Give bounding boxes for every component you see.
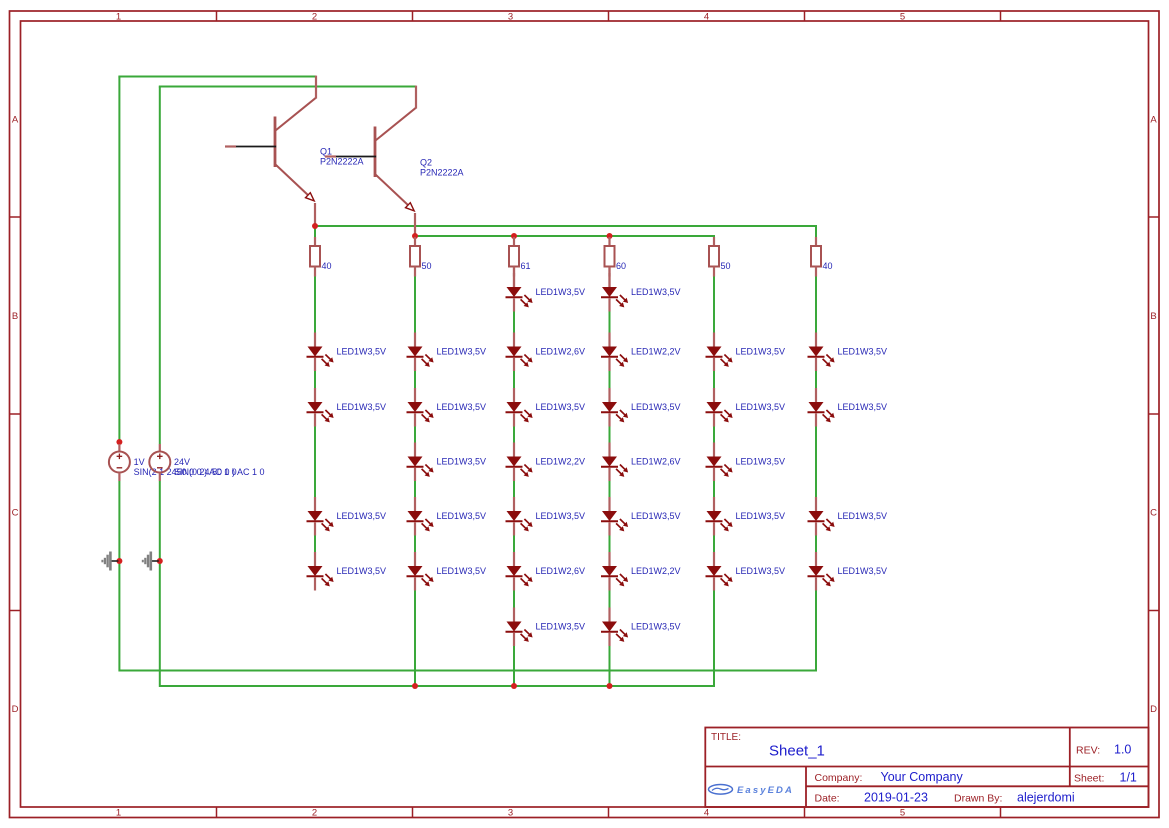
- LED D5.5 (LED1W3,5V): [706, 497, 786, 536]
- svg-text:LED1W3,5V: LED1W3,5V: [736, 511, 786, 521]
- svg-text:LED1W2,6V: LED1W2,6V: [536, 566, 586, 576]
- svg-text:C: C: [1150, 508, 1157, 519]
- svg-text:SIN(0 24 50 0 ) AC 1 0: SIN(0 24 50 0 ) AC 1 0: [174, 467, 265, 477]
- resistor R1 value 40: [310, 237, 332, 277]
- svg-text:EasyEDA: EasyEDA: [737, 785, 794, 796]
- frame row ticks left: [10, 217, 21, 611]
- svg-text:LED1W3,5V: LED1W3,5V: [838, 566, 888, 576]
- LED D3.1 (LED1W3,5V): [506, 273, 586, 312]
- LED D6.6 (LED1W3,5V): [808, 552, 888, 591]
- svg-text:LED1W3,5V: LED1W3,5V: [838, 347, 888, 357]
- junction bus2 column 3: [511, 233, 517, 239]
- svg-text:LED1W3,5V: LED1W3,5V: [437, 347, 487, 357]
- LED D2.6 (LED1W3,5V): [407, 552, 487, 591]
- LED D4.7 (LED1W3,5V): [601, 608, 681, 647]
- svg-text:LED1W3,5V: LED1W3,5V: [838, 511, 888, 521]
- wire column 4 top drop: [609, 236, 611, 238]
- svg-text:D: D: [12, 704, 19, 715]
- svg-text:LED1W3,5V: LED1W3,5V: [536, 402, 586, 412]
- svg-text:5: 5: [900, 12, 905, 23]
- svg-text:50: 50: [721, 261, 731, 271]
- svg-text:Q2: Q2: [420, 158, 432, 168]
- LED D4.3 (LED1W3,5V): [601, 388, 681, 427]
- svg-text:Company:: Company:: [815, 772, 863, 784]
- LED D3.6 (LED1W2,6V): [506, 552, 586, 591]
- wire column 5 top drop: [713, 235, 715, 238]
- svg-text:LED1W3,5V: LED1W3,5V: [337, 402, 387, 412]
- LED D1.6 (LED1W3,5V): [307, 552, 387, 591]
- wire column 1 segments: [314, 277, 316, 554]
- junction Q1 emitter / bus1: [312, 223, 318, 229]
- LED D3.7 (LED1W3,5V): [506, 608, 586, 647]
- svg-text:REV:: REV:: [1076, 745, 1100, 757]
- voltage source V1 (1V): [109, 439, 237, 481]
- svg-text:C: C: [12, 508, 19, 519]
- ground GND2: [143, 552, 163, 571]
- resistor R5 value 50: [709, 237, 731, 277]
- svg-text:3: 3: [508, 12, 513, 23]
- wire V2 top horizontal to Q2 collector: [159, 86, 416, 88]
- LED D4.4 (LED1W2,6V): [601, 443, 681, 482]
- svg-text:1/1: 1/1: [1120, 771, 1137, 785]
- svg-text:LED1W3,5V: LED1W3,5V: [631, 287, 681, 297]
- frame row labels left: [12, 115, 19, 716]
- resistor R3 value 61: [509, 237, 531, 277]
- wire bottom return bus to column 6: [119, 670, 816, 672]
- junction Q2 emitter / bus2: [412, 233, 418, 239]
- svg-text:TITLE:: TITLE:: [711, 732, 741, 743]
- svg-text:P2N2222A: P2N2222A: [320, 157, 364, 167]
- svg-text:LED1W3,5V: LED1W3,5V: [631, 402, 681, 412]
- svg-text:LED1W3,5V: LED1W3,5V: [437, 402, 487, 412]
- LED D5.4 (LED1W3,5V): [706, 443, 786, 482]
- svg-text:40: 40: [322, 261, 332, 271]
- frame row ticks right: [1149, 217, 1160, 611]
- svg-text:alejerdomi: alejerdomi: [1017, 791, 1075, 805]
- svg-text:Sheet_1: Sheet_1: [769, 743, 825, 760]
- wire V1 bottom vertical: [118, 481, 120, 672]
- LED D6.2 (LED1W3,5V): [808, 333, 888, 372]
- frame column ticks top: [217, 11, 1001, 21]
- LED D3.2 (LED1W2,6V): [506, 333, 586, 372]
- LED D2.3 (LED1W3,5V): [407, 388, 487, 427]
- svg-text:LED1W2,6V: LED1W2,6V: [536, 347, 586, 357]
- LED D2.2 (LED1W3,5V): [407, 333, 487, 372]
- LED D5.3 (LED1W3,5V): [706, 388, 786, 427]
- wire bottom return bus to columns 2-5: [160, 685, 714, 687]
- ground GND1: [102, 552, 122, 571]
- LED D5.2 (LED1W3,5V): [706, 333, 786, 372]
- resistor R2 value 50: [410, 237, 432, 277]
- svg-text:1V: 1V: [134, 457, 145, 467]
- wire emitter bus 1: [315, 225, 816, 227]
- svg-text:Sheet:: Sheet:: [1074, 773, 1104, 785]
- wire V2 bottom vertical: [159, 481, 161, 687]
- LED D4.1 (LED1W3,5V): [601, 273, 681, 312]
- junction bottom bus column 3: [511, 683, 517, 689]
- LED D3.5 (LED1W3,5V): [506, 497, 586, 536]
- LED D1.2 (LED1W3,5V): [307, 333, 387, 372]
- svg-text:24V: 24V: [174, 457, 190, 467]
- svg-text:LED1W3,5V: LED1W3,5V: [736, 566, 786, 576]
- wire V1 top horizontal to Q1 collector: [118, 76, 316, 78]
- svg-text:Your Company: Your Company: [881, 770, 964, 784]
- transistor Q2 P2N2222A: [325, 86, 464, 236]
- voltage source V2 (24V): [149, 444, 264, 481]
- frame column ticks bottom: [217, 807, 1001, 818]
- svg-text:LED1W3,5V: LED1W3,5V: [631, 622, 681, 632]
- svg-text:LED1W2,6V: LED1W2,6V: [631, 457, 681, 467]
- svg-text:B: B: [1150, 311, 1156, 322]
- svg-text:1: 1: [116, 12, 121, 23]
- svg-text:Q1: Q1: [320, 147, 332, 157]
- svg-text:LED1W3,5V: LED1W3,5V: [337, 511, 387, 521]
- svg-text:LED1W3,5V: LED1W3,5V: [536, 622, 586, 632]
- LED D5.6 (LED1W3,5V): [706, 552, 786, 591]
- LED D3.4 (LED1W2,2V): [506, 443, 586, 482]
- svg-text:40: 40: [823, 261, 833, 271]
- wire column 5 bottom riser: [713, 591, 715, 688]
- LED D4.6 (LED1W2,2V): [601, 552, 681, 591]
- svg-text:4: 4: [704, 808, 709, 819]
- wire column 3 segments: [513, 267, 515, 688]
- LED D6.5 (LED1W3,5V): [808, 497, 888, 536]
- svg-text:1: 1: [116, 808, 121, 819]
- EasyEDA logo: [709, 785, 794, 797]
- svg-text:LED1W3,5V: LED1W3,5V: [631, 511, 681, 521]
- svg-text:LED1W2,2V: LED1W2,2V: [631, 347, 681, 357]
- svg-text:2: 2: [312, 12, 317, 23]
- svg-text:60: 60: [616, 261, 626, 271]
- svg-text:61: 61: [521, 261, 531, 271]
- wire column 6 segments: [815, 277, 817, 554]
- LED D6.3 (LED1W3,5V): [808, 388, 888, 427]
- svg-text:LED1W2,2V: LED1W2,2V: [631, 566, 681, 576]
- svg-text:B: B: [12, 311, 18, 322]
- svg-text:LED1W3,5V: LED1W3,5V: [437, 566, 487, 576]
- svg-text:1.0: 1.0: [1114, 743, 1131, 757]
- wire column 5 segments: [713, 277, 715, 687]
- wire V1 loop top vertical: [118, 77, 120, 445]
- svg-text:LED1W3,5V: LED1W3,5V: [536, 511, 586, 521]
- LED D2.5 (LED1W3,5V): [407, 497, 487, 536]
- LED D4.5 (LED1W3,5V): [601, 497, 681, 536]
- svg-text:LED1W3,5V: LED1W3,5V: [437, 457, 487, 467]
- svg-text:A: A: [1150, 115, 1157, 126]
- junction bus2 column 4: [607, 233, 613, 239]
- LED D1.5 (LED1W3,5V): [307, 497, 387, 536]
- svg-text:LED1W3,5V: LED1W3,5V: [838, 402, 888, 412]
- wire column 1 top drop: [314, 226, 316, 238]
- transistor Q1 P2N2222A: [225, 76, 364, 226]
- svg-text:LED1W3,5V: LED1W3,5V: [736, 402, 786, 412]
- wire column 3 top drop: [513, 236, 515, 238]
- wire column 2 segments: [414, 277, 416, 688]
- wire column 6 top drop: [815, 225, 817, 238]
- wire emitter bus 2: [415, 235, 714, 237]
- LED D4.2 (LED1W2,2V): [601, 333, 681, 372]
- frame column labels top: [116, 12, 905, 23]
- svg-text:LED1W3,5V: LED1W3,5V: [337, 566, 387, 576]
- resistor R4 value 60: [605, 237, 627, 277]
- svg-text:2019-01-23: 2019-01-23: [864, 791, 928, 805]
- svg-text:5: 5: [900, 808, 905, 819]
- wire column 4 segments: [608, 267, 610, 688]
- svg-text:P2N2222A: P2N2222A: [420, 168, 464, 178]
- wire column 6 bottom riser: [815, 591, 817, 672]
- title block table: [705, 728, 1148, 808]
- svg-text:Date:: Date:: [815, 793, 840, 805]
- svg-text:A: A: [12, 115, 19, 126]
- svg-text:LED1W3,5V: LED1W3,5V: [736, 347, 786, 357]
- svg-text:50: 50: [422, 261, 432, 271]
- junction bottom bus column 2: [412, 683, 418, 689]
- frame column labels bottom: [116, 808, 905, 819]
- LED D1.3 (LED1W3,5V): [307, 388, 387, 427]
- svg-text:LED1W3,5V: LED1W3,5V: [337, 347, 387, 357]
- svg-text:4: 4: [704, 12, 709, 23]
- svg-text:LED1W2,2V: LED1W2,2V: [536, 457, 586, 467]
- svg-text:Drawn By:: Drawn By:: [954, 793, 1002, 805]
- svg-text:3: 3: [508, 808, 513, 819]
- svg-text:LED1W3,5V: LED1W3,5V: [437, 511, 487, 521]
- svg-text:2: 2: [312, 808, 317, 819]
- frame row labels right: [1150, 115, 1157, 716]
- svg-text:D: D: [1150, 704, 1157, 715]
- junction bottom bus column 4: [607, 683, 613, 689]
- LED D2.4 (LED1W3,5V): [407, 443, 487, 482]
- LED D3.3 (LED1W3,5V): [506, 388, 586, 427]
- wire V2 loop top vertical: [159, 87, 161, 445]
- svg-text:LED1W3,5V: LED1W3,5V: [736, 457, 786, 467]
- svg-text:LED1W3,5V: LED1W3,5V: [536, 287, 586, 297]
- resistor R6 value 40: [811, 237, 833, 277]
